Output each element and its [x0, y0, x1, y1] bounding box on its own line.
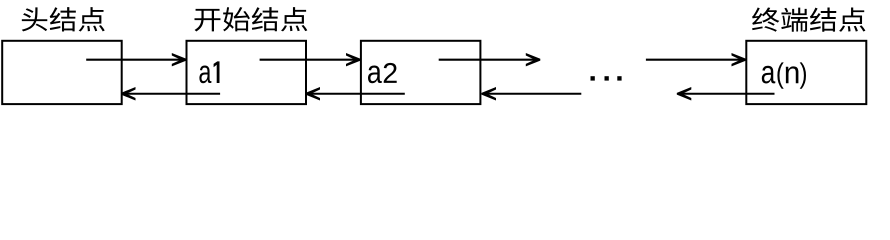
backward pointer arrow: a1 -> head node [121, 87, 220, 100]
backward pointer arrow: a2 -> a1 [306, 87, 405, 100]
label "终端结点" (terminal node) above box 4 [752, 7, 865, 31]
backward pointer arrow: ... -> a2 [482, 87, 582, 100]
node box 1 (head node) [2, 41, 122, 104]
label "头结点" (head node) above box 1 [22, 7, 105, 31]
label "开始结点" (start node) above box 2 [195, 7, 308, 31]
backward pointer arrow: a(n) -> ... [677, 87, 775, 100]
value label "a(n)" inside box 4 [762, 62, 806, 88]
forward pointer arrow: ... -> a(n) [646, 53, 746, 66]
node box 3 (data node a2) [361, 41, 481, 104]
value label "a1" inside box 2 [199, 61, 219, 83]
forward pointer arrow: a1 -> a2 [260, 53, 361, 66]
node box 4 (terminal node a(n)) [746, 41, 866, 104]
value label "a2" inside box 3 [368, 63, 397, 83]
forward pointer arrow: head node -> a1 [86, 53, 186, 66]
ellipsis dots "..." between a2 and a(n) [591, 76, 595, 80]
forward pointer arrow: a2 -> ... [439, 53, 541, 66]
node box 2 (first data node a1) [187, 41, 307, 104]
